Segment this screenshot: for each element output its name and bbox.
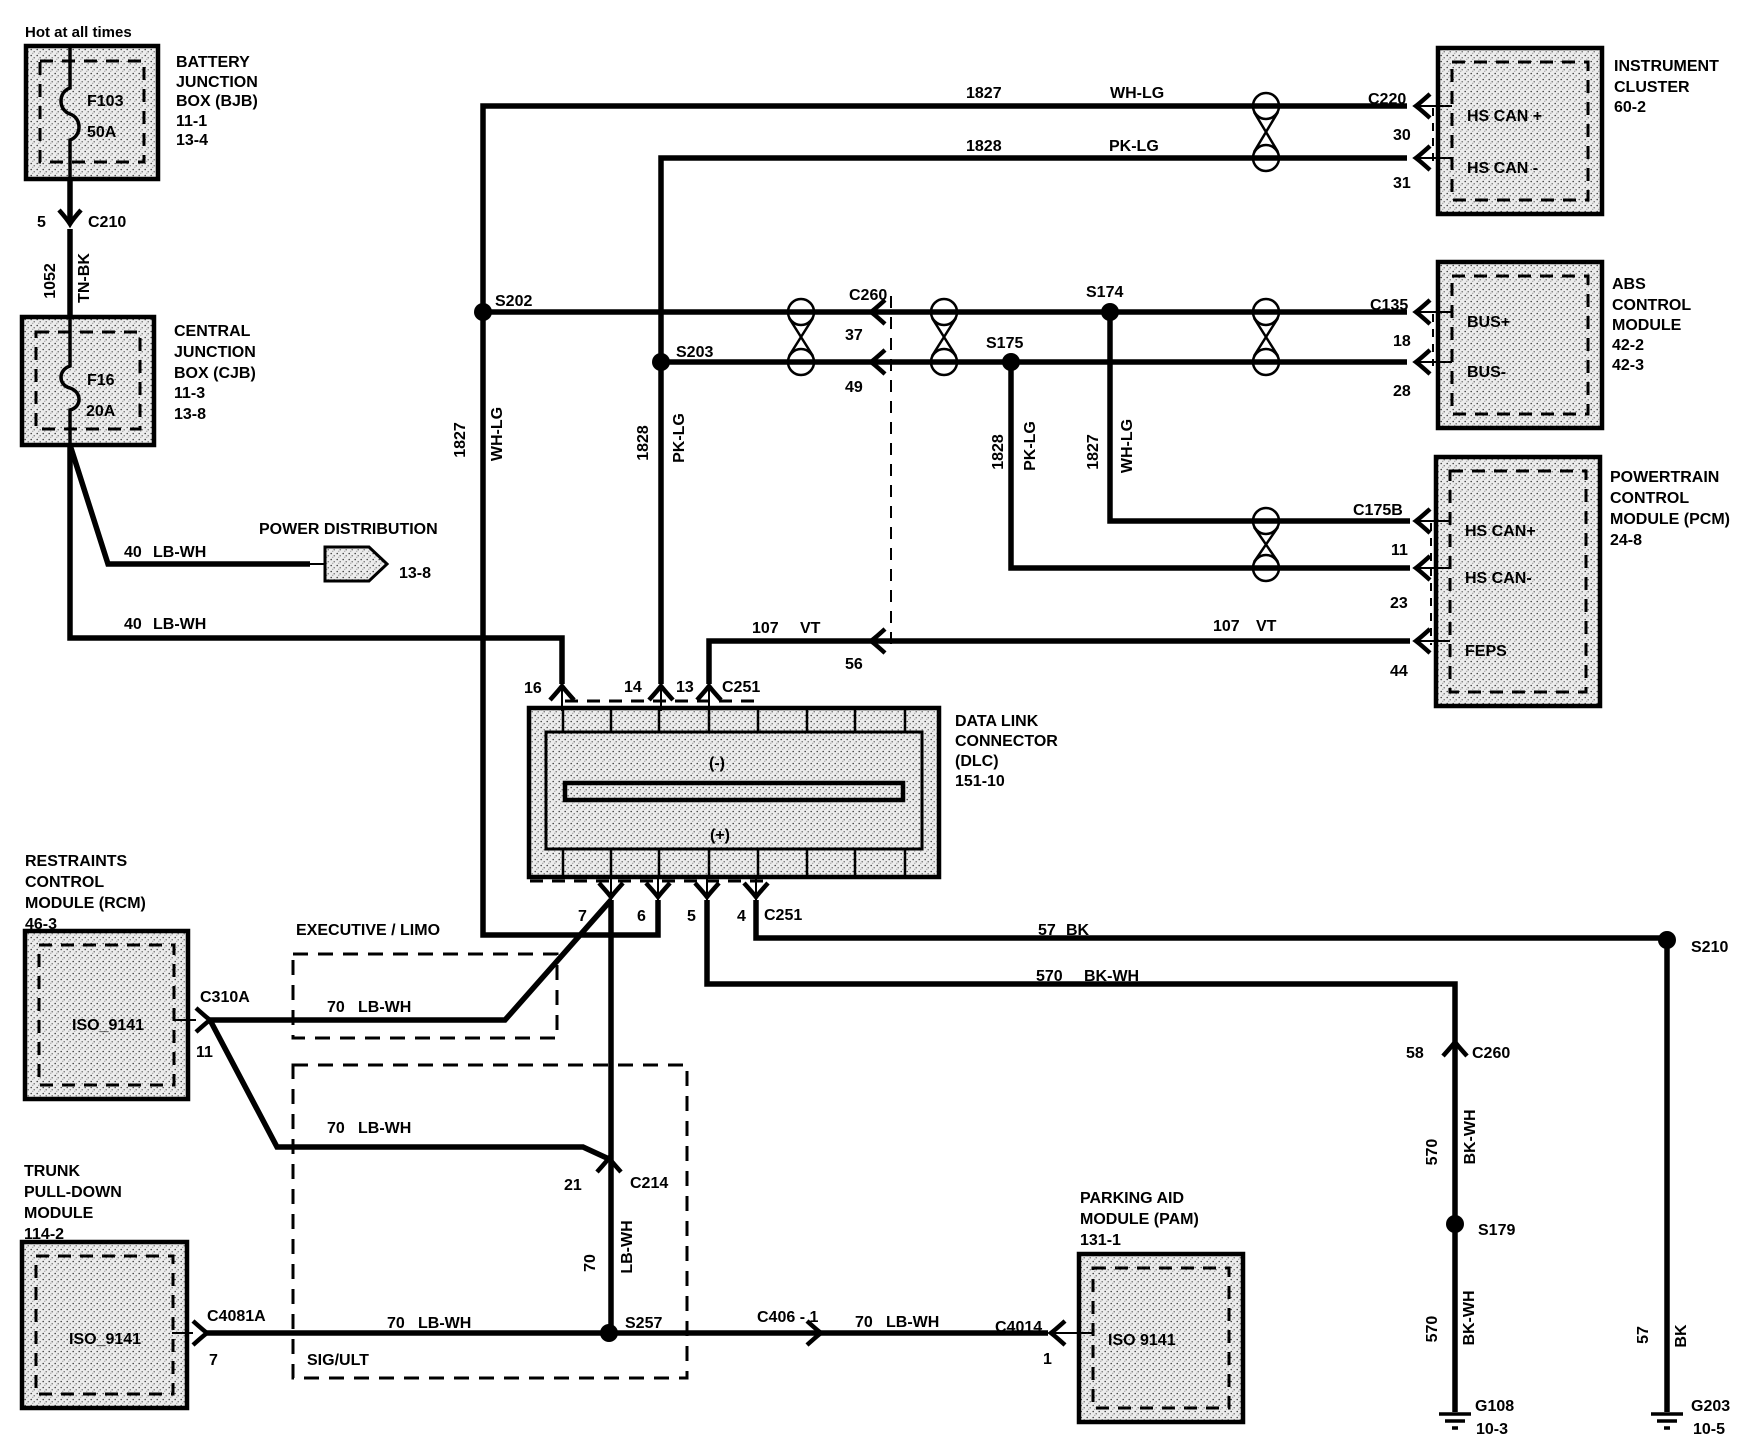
connector C260 arrow pin 49 <box>845 350 885 396</box>
power distribution arrow symbol 13-8 <box>259 521 438 582</box>
svg-text:CENTRAL: CENTRAL <box>174 323 251 340</box>
wire 570 BK-WH from DLC pin 5 to ground G108 <box>707 900 1479 1412</box>
node S203 <box>652 344 713 371</box>
svg-text:107: 107 <box>1213 618 1240 635</box>
twisted pair symbol before ABS <box>1253 299 1279 375</box>
label RESTRAINTS CONTROL MODULE (RCM) 46-3 <box>25 853 146 933</box>
svg-text:LB-WH: LB-WH <box>418 1315 471 1332</box>
svg-text:S203: S203 <box>676 344 713 361</box>
connector C210 arrow pin 5 <box>37 210 126 231</box>
svg-text:BUS+: BUS+ <box>1467 314 1510 331</box>
svg-text:MODULE (PCM): MODULE (PCM) <box>1610 511 1730 528</box>
svg-text:(+): (+) <box>710 827 730 844</box>
svg-text:46-3: 46-3 <box>25 916 57 933</box>
node S174 <box>1086 284 1123 321</box>
connector C175B arrow pin 11 HS CAN+ <box>1353 502 1536 645</box>
svg-text:S257: S257 <box>625 1315 662 1332</box>
connector C251 arrow pin 14 <box>624 679 673 711</box>
svg-text:HS CAN+: HS CAN+ <box>1465 523 1536 540</box>
svg-text:PK-LG: PK-LG <box>671 413 688 463</box>
svg-text:70: 70 <box>327 1120 345 1137</box>
svg-text:70: 70 <box>582 1254 599 1272</box>
svg-text:BK: BK <box>1066 922 1090 939</box>
svg-text:56: 56 <box>845 656 863 673</box>
connector C175B arrow pin 23 HS CAN- <box>1390 556 1532 612</box>
svg-text:57: 57 <box>1635 1326 1652 1344</box>
connector C220 arrow pin 30 HS CAN + <box>1368 91 1542 162</box>
svg-text:PK-LG: PK-LG <box>1109 138 1159 155</box>
svg-text:S179: S179 <box>1478 1222 1515 1239</box>
connector C406-1 arrow <box>757 1309 939 1345</box>
svg-text:30: 30 <box>1393 127 1411 144</box>
svg-text:DATA LINK: DATA LINK <box>955 713 1039 730</box>
svg-text:1828: 1828 <box>966 138 1002 155</box>
svg-text:G203: G203 <box>1691 1398 1730 1415</box>
svg-text:23: 23 <box>1390 595 1408 612</box>
svg-text:F16: F16 <box>87 372 115 389</box>
svg-text:C4014: C4014 <box>995 1319 1042 1336</box>
ground G203 10-5 <box>1651 1398 1730 1438</box>
svg-text:13-8: 13-8 <box>399 565 431 582</box>
svg-text:C251: C251 <box>764 907 802 924</box>
svg-text:42-2: 42-2 <box>1612 337 1644 354</box>
svg-text:HS CAN-: HS CAN- <box>1465 570 1532 587</box>
wire 70 LB-WH from RCM to C214 <box>210 1020 609 1159</box>
svg-text:5: 5 <box>37 214 46 231</box>
svg-text:LB-WH: LB-WH <box>619 1220 636 1273</box>
label INSTRUMENT CLUSTER 60-2 <box>1614 58 1719 116</box>
svg-text:57: 57 <box>1038 922 1056 939</box>
parking aid module PAM box <box>1079 1254 1243 1422</box>
svg-text:10-5: 10-5 <box>1693 1421 1725 1438</box>
svg-text:107: 107 <box>752 620 779 637</box>
ABS control module box <box>1438 262 1602 428</box>
svg-text:S202: S202 <box>495 293 532 310</box>
wire 70 LB-WH from trunk module to S257 and PAM <box>207 1315 1048 1333</box>
wire 70 LB-WH from RCM to DLC pin 7 <box>210 900 611 1020</box>
connector C220 arrow pin 31 HS CAN - <box>1393 146 1538 192</box>
wire 107 VT from PCM FEPS to DLC pin 13 <box>709 618 1410 684</box>
ground G108 10-3 <box>1439 1398 1514 1438</box>
connector C251 arrow pin 13 <box>676 679 760 711</box>
svg-text:13: 13 <box>676 679 694 696</box>
svg-text:VT: VT <box>1256 618 1277 635</box>
wire 70 LB-WH from DLC pin 7 down to S257 <box>582 900 636 1333</box>
wire 1052 TN-BK from BJB to CJB <box>67 179 73 317</box>
dashed group SIG/ULT <box>293 1065 687 1378</box>
svg-text:20A: 20A <box>86 403 116 420</box>
svg-text:MODULE (PAM): MODULE (PAM) <box>1080 1211 1199 1228</box>
svg-text:ISO_9141: ISO_9141 <box>72 1017 144 1034</box>
connector C251 arrow pin 6 <box>637 877 670 925</box>
svg-text:151-10: 151-10 <box>955 773 1005 790</box>
svg-text:42-3: 42-3 <box>1612 357 1644 374</box>
svg-text:7: 7 <box>209 1352 218 1369</box>
label PARKING AID MODULE (PAM) 131-1 <box>1080 1190 1199 1249</box>
connector C214 arrow pin 21 <box>564 1158 668 1194</box>
connector C135 arrow pin 18 BUS+ <box>1370 297 1510 366</box>
wire 40 LB-WH to power distribution <box>70 445 325 564</box>
svg-text:F103: F103 <box>87 93 124 110</box>
svg-text:BOX (CJB): BOX (CJB) <box>174 365 256 382</box>
twisted pair symbol before PCM <box>1253 508 1279 581</box>
central junction box CJB with fuse F16 20A <box>22 317 154 445</box>
svg-text:10-3: 10-3 <box>1476 1421 1508 1438</box>
svg-text:TRUNK: TRUNK <box>24 1163 80 1180</box>
svg-text:(-): (-) <box>709 755 725 772</box>
connector C251 arrow pin 16 <box>524 680 574 711</box>
svg-text:60-2: 60-2 <box>1614 99 1646 116</box>
svg-text:37: 37 <box>845 327 863 344</box>
svg-text:570: 570 <box>1036 968 1063 985</box>
svg-text:1827: 1827 <box>1085 434 1102 470</box>
svg-text:CLUSTER: CLUSTER <box>1614 79 1690 96</box>
svg-text:RESTRAINTS: RESTRAINTS <box>25 853 128 870</box>
svg-text:CONTROL: CONTROL <box>25 874 104 891</box>
svg-text:PARKING AID: PARKING AID <box>1080 1190 1184 1207</box>
svg-text:ISO 9141: ISO 9141 <box>1108 1332 1176 1349</box>
connector C251 bottom dashed boundary <box>530 880 770 883</box>
restraints control module RCM box <box>25 931 188 1099</box>
wire 1827 WH-LG main: instrument cluster to S202 down to DLC pin 6 <box>452 85 1407 935</box>
svg-text:WH-LG: WH-LG <box>489 407 506 461</box>
label ABS CONTROL MODULE 42-2 42-3 <box>1612 276 1691 374</box>
svg-text:CONTROL: CONTROL <box>1610 490 1689 507</box>
connector C135 arrow pin 28 BUS- <box>1393 350 1506 400</box>
label DATA LINK CONNECTOR (DLC) 151-10 <box>955 713 1058 790</box>
svg-text:BK-WH: BK-WH <box>1084 968 1139 985</box>
svg-text:POWER DISTRIBUTION: POWER DISTRIBUTION <box>259 521 438 538</box>
svg-text:16: 16 <box>524 680 542 697</box>
svg-text:PULL-DOWN: PULL-DOWN <box>24 1184 122 1201</box>
connector C4081A arrow pin 7 <box>172 1308 266 1369</box>
svg-text:ABS: ABS <box>1612 276 1646 293</box>
connector C260 arrow pin 37 <box>845 300 885 344</box>
svg-text:131-1: 131-1 <box>1080 1232 1121 1249</box>
svg-text:C214: C214 <box>630 1175 668 1192</box>
node S210 <box>1658 931 1728 956</box>
dashed group EXECUTIVE / LIMO <box>293 922 557 1038</box>
svg-text:70: 70 <box>855 1314 873 1331</box>
svg-text:570: 570 <box>1424 1316 1441 1343</box>
connector C251 arrow pin 4 <box>737 877 802 925</box>
node S202 <box>474 293 532 321</box>
svg-text:MODULE: MODULE <box>24 1205 94 1222</box>
svg-text:LB-WH: LB-WH <box>153 616 206 633</box>
connector C260 dashed boundary <box>849 287 891 652</box>
svg-text:C210: C210 <box>88 214 126 231</box>
svg-text:BK-WH: BK-WH <box>1462 1109 1479 1164</box>
svg-text:70: 70 <box>387 1315 405 1332</box>
svg-text:1827: 1827 <box>966 85 1002 102</box>
data link connector DLC box <box>529 708 939 877</box>
svg-text:BATTERY: BATTERY <box>176 54 250 71</box>
svg-text:C175B: C175B <box>1353 502 1403 519</box>
svg-text:SIG/ULT: SIG/ULT <box>307 1352 369 1369</box>
svg-text:58: 58 <box>1406 1045 1424 1062</box>
wire 1827 WH-LG from S174 to PCM HS CAN+ <box>1085 312 1410 521</box>
svg-text:24-8: 24-8 <box>1610 532 1642 549</box>
svg-text:C135: C135 <box>1370 297 1408 314</box>
wire 1828 PK-LG from S175 to PCM HS CAN- <box>990 362 1410 568</box>
svg-text:C310A: C310A <box>200 989 250 1006</box>
svg-text:11-3: 11-3 <box>174 385 205 402</box>
svg-text:HS CAN -: HS CAN - <box>1467 160 1538 177</box>
svg-text:BUS-: BUS- <box>1467 364 1506 381</box>
label POWERTRAIN CONTROL MODULE (PCM) 24-8 <box>1610 469 1730 549</box>
connector arrow pin 44 FEPS <box>1390 629 1507 680</box>
node S175 <box>986 335 1023 371</box>
svg-text:11: 11 <box>1391 542 1408 559</box>
svg-text:LB-WH: LB-WH <box>358 999 411 1016</box>
svg-text:13-4: 13-4 <box>176 132 208 149</box>
twisted pair symbol at S202/S203 wires right <box>931 299 957 375</box>
wire 40 LB-WH to DLC pin 16 <box>70 445 562 684</box>
wire S203 to ABS BUS- <box>661 359 1407 365</box>
wire S202 to ABS BUS+ <box>483 309 1407 315</box>
svg-text:C4081A: C4081A <box>207 1308 266 1325</box>
connector C4014 arrow pin 1 <box>995 1319 1092 1368</box>
svg-text:LB-WH: LB-WH <box>358 1120 411 1137</box>
svg-text:ISO_9141: ISO_9141 <box>69 1331 141 1348</box>
svg-text:114-2: 114-2 <box>24 1226 64 1243</box>
svg-text:570: 570 <box>1424 1139 1441 1166</box>
connector C260 arrow pin 56 on 107 VT wire <box>845 629 885 673</box>
svg-text:11-1: 11-1 <box>176 113 207 130</box>
connector C310A arrow pin 11 <box>174 989 250 1061</box>
svg-text:C260: C260 <box>1472 1045 1510 1062</box>
node S179 <box>1446 1215 1515 1239</box>
svg-text:13-8: 13-8 <box>174 406 206 423</box>
svg-text:5: 5 <box>687 908 696 925</box>
svg-text:S174: S174 <box>1086 284 1123 301</box>
battery junction box BJB with fuse F103 50A <box>26 46 158 179</box>
svg-text:LB-WH: LB-WH <box>153 544 206 561</box>
svg-text:1827: 1827 <box>452 422 469 458</box>
svg-text:BK: BK <box>1673 1324 1690 1348</box>
svg-text:40: 40 <box>124 616 142 633</box>
connector C251 top dashed boundary <box>565 700 758 703</box>
svg-text:EXECUTIVE / LIMO: EXECUTIVE / LIMO <box>296 922 440 939</box>
svg-text:Hot at all times: Hot at all times <box>25 24 132 41</box>
svg-text:POWERTRAIN: POWERTRAIN <box>1610 469 1719 486</box>
svg-text:LB-WH: LB-WH <box>886 1314 939 1331</box>
svg-text:28: 28 <box>1393 383 1411 400</box>
svg-text:11: 11 <box>196 1044 213 1061</box>
svg-text:BOX (BJB): BOX (BJB) <box>176 93 258 110</box>
wire 1828 PK-LG main: instrument cluster to S203 down to DLC pin 14 <box>635 138 1407 684</box>
svg-text:(DLC): (DLC) <box>955 753 999 770</box>
svg-text:31: 31 <box>1393 175 1411 192</box>
svg-text:S175: S175 <box>986 335 1023 352</box>
svg-text:JUNCTION: JUNCTION <box>174 344 256 361</box>
svg-text:14: 14 <box>624 679 642 696</box>
svg-text:CONNECTOR: CONNECTOR <box>955 733 1058 750</box>
powertrain control module PCM box <box>1436 457 1600 706</box>
svg-text:C406 - 1: C406 - 1 <box>757 1309 818 1326</box>
svg-text:JUNCTION: JUNCTION <box>176 74 258 91</box>
svg-text:HS CAN +: HS CAN + <box>1467 108 1542 125</box>
svg-text:50A: 50A <box>87 124 117 141</box>
svg-text:7: 7 <box>578 908 587 925</box>
svg-text:21: 21 <box>564 1177 582 1194</box>
svg-text:CONTROL: CONTROL <box>1612 297 1691 314</box>
svg-text:1052: 1052 <box>42 263 59 299</box>
twisted pair symbol at S202/S203 wires left <box>788 299 814 375</box>
svg-text:18: 18 <box>1393 333 1411 350</box>
twisted pair symbol before instrument cluster <box>1253 93 1279 171</box>
wire 57 BK from DLC pin 4 to S210 and ground G203 <box>756 900 1690 1412</box>
svg-text:1828: 1828 <box>990 434 1007 470</box>
svg-text:WH-LG: WH-LG <box>1110 85 1164 102</box>
connector C260 arrow pin 58 <box>1406 1042 1510 1062</box>
svg-text:40: 40 <box>124 544 142 561</box>
label BATTERY JUNCTION BOX (BJB) 11-1 13-4 <box>176 54 258 149</box>
svg-text:C220: C220 <box>1368 91 1406 108</box>
trunk pull-down module box <box>22 1242 187 1408</box>
svg-text:1828: 1828 <box>635 425 652 461</box>
svg-text:44: 44 <box>1390 663 1408 680</box>
label CENTRAL JUNCTION BOX (CJB) 11-3 13-8 <box>174 323 256 423</box>
svg-text:6: 6 <box>637 908 646 925</box>
svg-text:BK-WH: BK-WH <box>1461 1290 1478 1345</box>
node: Hot at all times label <box>25 24 132 41</box>
svg-text:S210: S210 <box>1691 939 1728 956</box>
svg-text:4: 4 <box>737 908 746 925</box>
svg-text:PK-LG: PK-LG <box>1022 421 1039 471</box>
svg-text:G108: G108 <box>1475 1398 1514 1415</box>
svg-text:70: 70 <box>327 999 345 1016</box>
label TRUNK PULL-DOWN MODULE 114-2 <box>24 1163 122 1243</box>
node S257 <box>600 1315 662 1342</box>
svg-text:FEPS: FEPS <box>1465 643 1507 660</box>
label 1052 TN-BK <box>42 253 93 303</box>
svg-text:MODULE: MODULE <box>1612 317 1682 334</box>
svg-text:1: 1 <box>1043 1351 1052 1368</box>
svg-text:MODULE (RCM): MODULE (RCM) <box>25 895 146 912</box>
svg-text:WH-LG: WH-LG <box>1119 419 1136 473</box>
connector C251 arrow pin 5 <box>687 877 719 925</box>
svg-text:VT: VT <box>800 620 821 637</box>
svg-text:INSTRUMENT: INSTRUMENT <box>1614 58 1719 75</box>
connector C251 arrow pin 7 <box>578 877 623 925</box>
svg-text:TN-BK: TN-BK <box>76 253 93 303</box>
instrument cluster module box <box>1438 48 1602 214</box>
svg-text:C251: C251 <box>722 679 760 696</box>
svg-text:49: 49 <box>845 379 863 396</box>
